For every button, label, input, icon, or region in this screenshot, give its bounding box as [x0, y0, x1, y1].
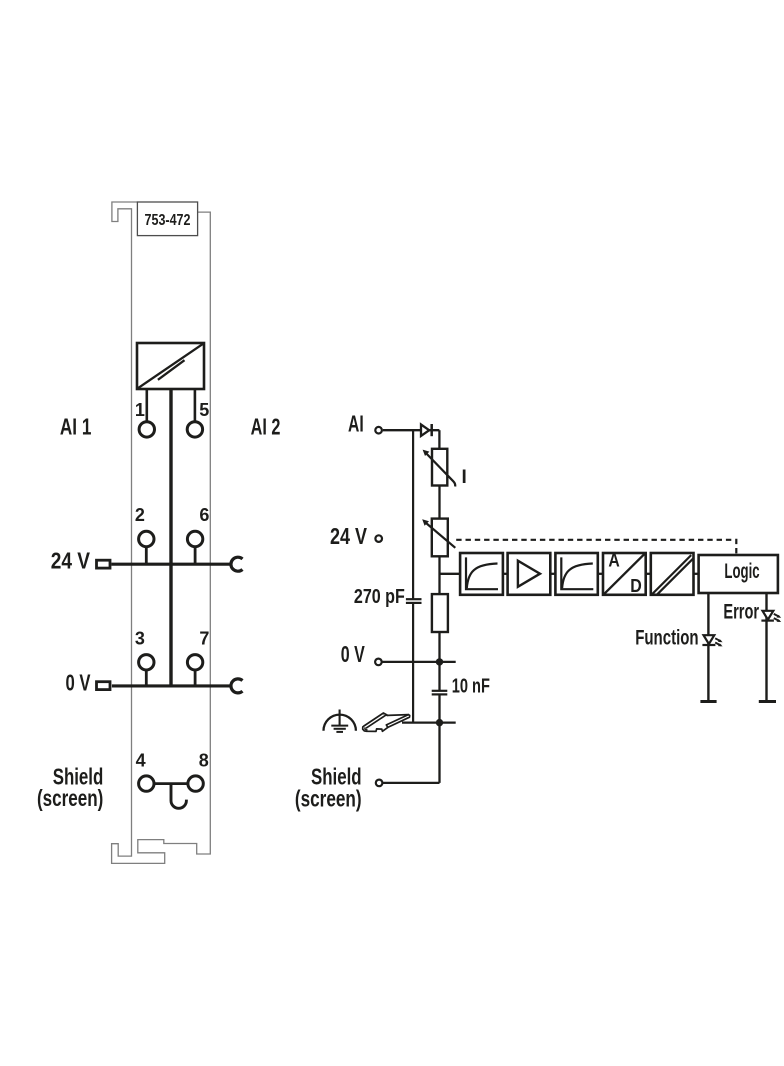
svg-text:(screen): (screen): [295, 785, 362, 811]
tap wire to filter chain: [440, 573, 461, 575]
wire stem contact 2: [145, 548, 148, 566]
contact 8 circle: [188, 776, 203, 791]
earth bar 1: [331, 725, 348, 727]
svg-text:I: I: [462, 467, 467, 488]
wire stem contact 5: [194, 389, 197, 421]
svg-text:10 nF: 10 nF: [452, 675, 490, 697]
R1 arrowhead: [423, 450, 430, 456]
wire stem contact 1: [146, 389, 149, 421]
contact 3 circle: [139, 655, 154, 670]
capacitor 270pF bottom plate: [406, 602, 422, 604]
wire stem contact 3: [145, 671, 148, 687]
svg-text:AI: AI: [348, 410, 364, 436]
svg-text:7: 7: [199, 628, 209, 648]
wire R2 to R3: [438, 556, 440, 594]
Function LED D3: [704, 635, 715, 644]
transducer short parallel line: [158, 360, 185, 380]
Function LED wire: [707, 593, 709, 702]
24V terminal: [375, 535, 382, 542]
svg-text:Logic: Logic: [724, 560, 759, 583]
label box 753-472: [137, 202, 197, 236]
B5 diagonal 1: [652, 555, 691, 594]
svg-text:AI 2: AI 2: [251, 414, 281, 440]
svg-text:A: A: [608, 550, 619, 570]
Function LED cathode bar: [702, 644, 715, 646]
svg-text:2: 2: [135, 505, 145, 525]
wire R1 to R2: [438, 486, 440, 519]
wire B2-B3: [550, 573, 555, 575]
svg-text:753-472: 753-472: [145, 212, 191, 229]
filter block B1: [460, 553, 503, 595]
A/D converter block B4: [603, 553, 646, 595]
transducer diagonal: [138, 344, 204, 389]
B3 curve: [562, 564, 593, 589]
wire B3-B4: [598, 573, 603, 575]
0V connector square: [97, 682, 111, 690]
svg-text:D: D: [630, 576, 642, 596]
Shield wire: [382, 782, 439, 784]
svg-text:Error: Error: [723, 600, 759, 623]
svg-text:270 pF: 270 pF: [354, 586, 405, 608]
svg-text:0 V: 0 V: [66, 670, 91, 696]
svg-text:8: 8: [199, 750, 209, 770]
variable resistor R2: [432, 519, 448, 557]
rail junction dot: [436, 719, 443, 726]
Shield terminal: [376, 780, 383, 787]
wire between contacts 4 and 8: [155, 782, 188, 785]
svg-text:24 V: 24 V: [51, 548, 91, 574]
B2 triangle: [518, 561, 540, 587]
Error LED arrowheads: [777, 615, 782, 618]
Logic box: [699, 555, 778, 593]
Error terminal bar: [759, 700, 776, 703]
internal bus wire (thick vertical): [169, 389, 172, 686]
R1 arrow: [425, 452, 455, 487]
earth stem: [339, 710, 341, 726]
shield hook wire: [171, 784, 186, 809]
capacitor 10nF top plate: [432, 690, 448, 692]
ground rail wire: [402, 721, 456, 723]
Error LED wire: [765, 593, 767, 702]
svg-text:0 V: 0 V: [341, 641, 365, 667]
contact 7 circle: [187, 655, 202, 670]
0V junction dot: [436, 658, 443, 665]
24V pass-through socket arc: [231, 557, 243, 571]
wire B1-B2: [503, 573, 508, 575]
wire B4-B5: [646, 573, 651, 575]
svg-text:(screen): (screen): [37, 785, 103, 811]
filter block B3: [555, 553, 597, 595]
capacitor 10nF bottom plate: [432, 693, 448, 695]
contact 4 circle: [139, 776, 154, 791]
resistor R3: [432, 594, 448, 632]
wire stem contact 7: [194, 671, 197, 687]
B5 diagonal 2: [657, 558, 694, 595]
B3 axes: [561, 557, 593, 589]
R2 arrow: [424, 522, 455, 548]
contact 6 circle: [187, 531, 202, 546]
variable resistor R1: [432, 449, 447, 486]
svg-text:4: 4: [136, 750, 146, 770]
left vertical wire (AI to ground rail) upper part: [412, 430, 414, 599]
Error LED arrows: [774, 614, 780, 621]
transducer box U1: [137, 343, 204, 389]
contact 1 circle: [139, 422, 154, 437]
Function terminal bar: [700, 700, 716, 703]
wire 10nF to rail line and shield: [438, 694, 440, 783]
contact 5 circle: [187, 422, 202, 437]
Error LED cathode bar: [761, 619, 774, 621]
svg-text:5: 5: [199, 400, 209, 420]
B1 axes: [466, 557, 498, 589]
0V rail wire: [112, 684, 231, 687]
svg-text:AI 1: AI 1: [60, 414, 92, 440]
left vertical wire lower part: [412, 603, 414, 723]
branch wire AI corner down to R1: [438, 430, 440, 448]
diode D1 cathode bar: [430, 424, 433, 436]
earth bar 3: [336, 731, 343, 733]
AI wire: [383, 429, 440, 431]
DIN rail icon: [363, 713, 410, 731]
module outline (753-472 terminal block body): [112, 202, 211, 863]
AI terminal: [375, 427, 382, 434]
B4 diagonal: [604, 553, 645, 594]
Function LED arrowheads: [718, 639, 723, 642]
Error LED D2: [763, 611, 774, 620]
svg-text:24 V: 24 V: [330, 523, 367, 549]
amplifier block B2: [508, 553, 551, 595]
svg-text:3: 3: [135, 628, 145, 648]
0V wire: [382, 661, 456, 663]
R2 arrowhead: [422, 519, 429, 525]
24V rail wire: [111, 563, 230, 566]
24V connector square: [97, 560, 111, 568]
svg-text:1: 1: [135, 400, 145, 420]
isolation block B5: [651, 553, 694, 595]
svg-text:Function: Function: [635, 626, 698, 649]
Function LED arrows: [715, 638, 721, 645]
wire B5-Logic: [694, 573, 699, 575]
0V pass-through socket arc: [231, 679, 243, 693]
earth bar 2: [334, 728, 346, 730]
dashed control line from R2 to Logic: [456, 540, 736, 554]
contact 2 circle: [139, 531, 154, 546]
B1 curve: [467, 564, 498, 589]
earth symbol arc: [324, 715, 356, 731]
diode D1: [421, 425, 429, 436]
wire R3 to 10nF: [438, 632, 440, 691]
svg-text:6: 6: [199, 505, 209, 525]
wire stem contact 6: [194, 548, 197, 566]
0V terminal: [375, 659, 382, 666]
capacitor 270pF top plate: [406, 598, 422, 600]
